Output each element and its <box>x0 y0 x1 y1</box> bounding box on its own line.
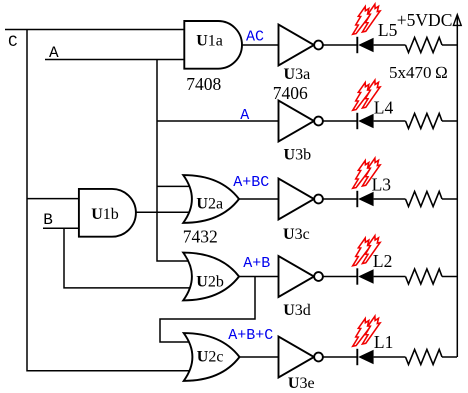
svg-text:C: C <box>8 33 18 51</box>
svg-text:U3b: U3b <box>284 146 312 163</box>
svg-text:A+BC: A+BC <box>233 174 269 191</box>
svg-text:B: B <box>43 211 53 229</box>
svg-text:5x470 Ω: 5x470 Ω <box>389 63 448 82</box>
svg-text:L4: L4 <box>374 98 394 118</box>
svg-text:+5VDC: +5VDC <box>397 10 453 30</box>
svg-text:U2a: U2a <box>196 196 223 213</box>
svg-text:L2: L2 <box>373 251 392 271</box>
svg-text:A: A <box>240 107 249 124</box>
svg-text:U3e: U3e <box>288 375 315 392</box>
svg-text:U1a: U1a <box>196 33 223 50</box>
svg-text:U3c: U3c <box>283 226 310 243</box>
svg-text:U3d: U3d <box>283 302 311 319</box>
svg-text:7432: 7432 <box>183 226 218 246</box>
svg-text:U3a: U3a <box>284 66 311 83</box>
svg-text:A+B: A+B <box>243 255 270 272</box>
svg-text:A+B+C: A+B+C <box>228 327 273 344</box>
svg-text:7408: 7408 <box>186 74 221 94</box>
svg-text:L5: L5 <box>378 20 398 40</box>
svg-text:7406: 7406 <box>273 83 308 103</box>
svg-text:U1b: U1b <box>91 206 119 223</box>
svg-text:L3: L3 <box>372 175 392 195</box>
svg-text:AC: AC <box>246 29 264 46</box>
svg-text:L1: L1 <box>374 332 393 352</box>
svg-text:U2c: U2c <box>197 349 224 366</box>
svg-text:A: A <box>49 44 59 62</box>
svg-text:U2b: U2b <box>196 273 224 290</box>
